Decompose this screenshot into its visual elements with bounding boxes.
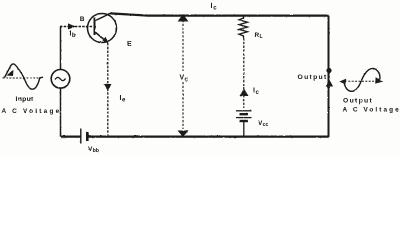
svg-text:Ic: Ic (253, 88, 260, 96)
output waveform arrowhead (375, 77, 383, 83)
battery VCC (236, 111, 252, 137)
battery VBB (81, 129, 88, 144)
svg-text:A C Voltage: A C Voltage (2, 108, 62, 115)
resistor RL (239, 16, 248, 38)
wire bottom rail (61, 135, 329, 137)
input waveform arrowhead (7, 70, 14, 77)
svg-text:RL: RL (255, 32, 264, 40)
svg-text:Vc: Vc (180, 75, 189, 83)
svg-text:E: E (127, 41, 132, 48)
current arrow Ib (68, 24, 76, 30)
svg-text:Ic: Ic (211, 3, 218, 11)
output arrow on wire (326, 80, 334, 87)
svg-text:A C Voltage: A C Voltage (343, 106, 400, 113)
svg-text:B: B (80, 16, 85, 23)
wire right vertical (output branch) (328, 16, 330, 137)
emitter arrowhead (103, 37, 109, 44)
input AC waveform (3, 64, 44, 89)
output AC waveform (342, 68, 382, 91)
wire emitter to bottom rail (107, 43, 109, 136)
node Output (junction dot) (326, 68, 331, 73)
svg-text:Ib: Ib (70, 31, 76, 39)
svg-text:Input: Input (16, 96, 35, 103)
voltage arrow VC (double headed) (182, 20, 184, 129)
current arrow Ic (load branch) (240, 89, 249, 97)
svg-text:Output: Output (298, 74, 328, 81)
svg-text:Vcc: Vcc (258, 120, 269, 128)
svg-text:Ie: Ie (120, 95, 127, 103)
wire RL to battery VCC (243, 38, 245, 108)
svg-text:Vbb: Vbb (88, 146, 99, 154)
output waveform start arrowhead (339, 79, 346, 85)
wire base lead (Ib) (60, 26, 94, 28)
AC source (input signal source) (51, 70, 70, 89)
wire left vertical (input branch) (60, 27, 62, 137)
wire top rail (collector) (111, 13, 329, 15)
current arrow Ie (104, 84, 112, 91)
svg-text:Output: Output (343, 98, 373, 105)
transistor Q1 (NPN) (88, 13, 117, 43)
